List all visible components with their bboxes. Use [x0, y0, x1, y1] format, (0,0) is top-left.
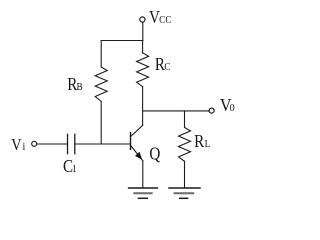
svg-text:B: B — [76, 81, 82, 93]
svg-text:Q: Q — [149, 143, 160, 164]
svg-text:C: C — [164, 62, 170, 74]
svg-text:CC: CC — [159, 14, 172, 26]
svg-text:V: V — [11, 136, 22, 154]
svg-text:0: 0 — [230, 102, 235, 114]
svg-text:R: R — [194, 131, 205, 152]
svg-text:i: i — [22, 140, 25, 153]
svg-text:1: 1 — [72, 163, 77, 175]
svg-text:L: L — [205, 138, 211, 150]
svg-text:V: V — [149, 7, 160, 28]
